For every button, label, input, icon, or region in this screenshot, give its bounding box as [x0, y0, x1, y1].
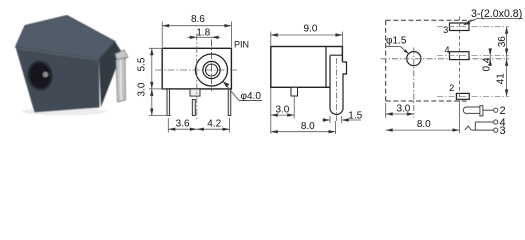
schematic: switch vertical wire: [474, 122, 476, 130]
dimension 3.0 (front legs): [150, 89, 153, 96]
front view: body outline: [162, 48, 231, 89]
schematic: pin 4 wire: [475, 121, 493, 123]
dimension 1.5 (leg width): [329, 116, 331, 123]
side view: terminal separation line: [325, 47, 327, 88]
front view: right leg pin: [228, 89, 231, 116]
dimension 8.0 (bottom view): [386, 129, 460, 131]
front view: pin ring circle: [203, 61, 220, 78]
svg-text:36: 36: [497, 36, 508, 48]
svg-text:5.5: 5.5: [137, 57, 148, 71]
front view: pin hole circle: [206, 64, 218, 76]
bottom view: pad 4 row line: [437, 55, 509, 57]
schematic: center pin plug symbol: [463, 107, 481, 113]
dimension 1.8 (pin offset): [197, 36, 212, 38]
photo: jack top face: [16, 16, 116, 60]
front view: horizontal centerline: [155, 69, 238, 71]
schematic: pin 2 terminal: [494, 108, 498, 112]
schematic: pin 3 wire: [471, 129, 493, 131]
dimension 0.4 (pad4 to center offset): [489, 48, 491, 66]
photo: DC jack body shadow: [22, 108, 106, 116]
side view: metal leg with rounded bottom: [330, 55, 347, 114]
svg-text:1.8: 1.8: [196, 28, 210, 39]
photo: jack right face: [99, 42, 122, 108]
dimension 8.6 (front width): [161, 22, 163, 48]
bottom view: pad 4: [450, 52, 470, 60]
bottom view: circle vertical centerline: [413, 48, 415, 118]
photo: metal terminal lug: [115, 50, 128, 63]
bottom view: pad column centerline: [459, 17, 461, 101]
svg-text:41: 41: [495, 73, 506, 85]
svg-text:8.0: 8.0: [301, 121, 315, 132]
svg-text:1.5: 1.5: [348, 110, 362, 121]
bottom view: pad 3: [450, 23, 470, 31]
svg-text:2: 2: [500, 105, 506, 117]
svg-text:0.4: 0.4: [481, 57, 492, 71]
schematic: sleeve spring contact: [465, 126, 471, 130]
dimension 3.0 (stub position): [270, 87, 272, 134]
bottom view: body dashed outline bottom edge: [386, 100, 468, 102]
svg-text:φ4.0: φ4.0: [241, 91, 262, 102]
svg-text:9.0: 9.0: [304, 24, 318, 35]
schematic: pin 4 terminal: [494, 120, 498, 124]
dimension 36 (pad3-pad4 spacing): [506, 27, 508, 97]
svg-text:4: 4: [444, 45, 449, 56]
svg-text:3.0: 3.0: [275, 104, 289, 115]
label phi4.0 with leader: [223, 81, 239, 100]
bottom view: body dashed outline left edge: [385, 20, 387, 101]
dimension 3.0 (bottom view): [385, 103, 387, 118]
photo: center pin tip: [43, 72, 49, 78]
svg-text:φ1.5: φ1.5: [386, 36, 407, 47]
front view: center terminal narrow pin: [192, 100, 195, 116]
bottom view: 8.0 right extension line: [459, 100, 461, 133]
bottom view: pad 2 row line: [437, 95, 509, 97]
photo: barrel hole: [27, 60, 54, 91]
side view: body outline: [271, 47, 343, 88]
svg-text:3: 3: [443, 25, 448, 36]
svg-text:PIN: PIN: [234, 39, 249, 49]
dimension 5.5 (body height): [149, 47, 163, 49]
svg-text:3.0: 3.0: [396, 104, 410, 115]
dimension 9.0 (side width): [270, 32, 272, 46]
side view: bottom pin stub: [291, 87, 298, 96]
svg-text:8.0: 8.0: [417, 119, 431, 130]
svg-text:3-(2.0x0.8): 3-(2.0x0.8): [471, 8, 522, 20]
bottom view: body dashed outline top edge: [386, 19, 476, 21]
schematic: pin 2 wire: [483, 109, 494, 111]
side view: leg centerline: [336, 58, 338, 121]
bottom view: pad 3 row line: [437, 26, 509, 28]
bottom view: pad 2: [456, 93, 469, 99]
photo: jack front face: [16, 47, 100, 113]
side view: terminal fold line: [330, 54, 342, 56]
front view: barrel circle phi4.0: [196, 54, 228, 86]
front view: left leg pin: [167, 89, 170, 116]
svg-text:3: 3: [500, 125, 506, 137]
dimension 8.0 (leg position): [335, 121, 337, 134]
svg-text:8.6: 8.6: [191, 14, 205, 25]
bottom view: pin hole circle phi1.5: [407, 52, 421, 66]
front view: center terminal wide part: [190, 89, 200, 96]
svg-text:2: 2: [449, 83, 454, 94]
schematic: pin 3 terminal: [494, 128, 498, 132]
dimension 3.6 / 4.2 (leg spacing): [167, 118, 169, 133]
svg-text:4.2: 4.2: [207, 119, 221, 130]
front view: body vertical centerline: [196, 34, 198, 121]
svg-text:3.6: 3.6: [176, 119, 190, 130]
dimension 41 (center-pad2 spacing): [505, 59, 508, 66]
photo: front face top bevel highlight: [17, 48, 99, 60]
schematic: tip contact bar: [480, 106, 483, 116]
bottom view: circle row centerline: [381, 58, 510, 60]
front view: barrel vertical centerline: [211, 40, 213, 92]
svg-text:3.0: 3.0: [137, 82, 148, 96]
